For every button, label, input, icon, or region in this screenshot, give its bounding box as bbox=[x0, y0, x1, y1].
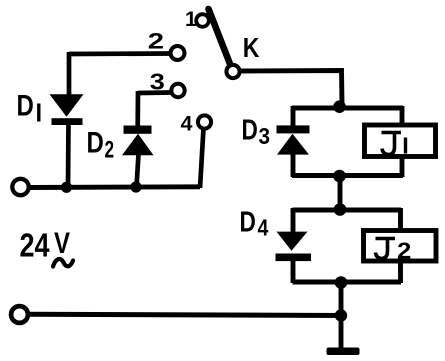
wire switch pole to node A bbox=[241, 71, 343, 105]
switch K top contact circle bbox=[196, 14, 209, 27]
wire bottom rail bbox=[29, 314, 342, 315]
wire terminal 2 to D1 branch bbox=[69, 51, 170, 56]
wire J1 right branch upper bbox=[400, 106, 405, 125]
terminal 4 circle bbox=[198, 115, 211, 128]
junction dot D1-rail bbox=[61, 182, 72, 193]
wire J1 bottom rail bbox=[292, 173, 403, 178]
svg-text:4: 4 bbox=[258, 215, 269, 241]
label K bbox=[243, 33, 260, 63]
left AC terminal lower bbox=[11, 306, 28, 323]
wire D3 branch vertical bbox=[291, 106, 296, 177]
svg-text:2: 2 bbox=[148, 30, 164, 54]
svg-text:D: D bbox=[17, 88, 34, 122]
svg-text:3: 3 bbox=[259, 123, 271, 149]
switch K lever bbox=[209, 9, 232, 67]
wire J1 top rail bbox=[292, 106, 403, 111]
wire terminal 4 down to rail bbox=[200, 129, 204, 189]
left AC terminal upper bbox=[12, 179, 28, 195]
wire J2 bottom rail bbox=[293, 280, 402, 285]
junction dot J1 bottom bbox=[333, 170, 346, 183]
svg-text:D: D bbox=[240, 205, 256, 238]
diode D1 bbox=[50, 94, 84, 125]
junction dot D2-rail bbox=[130, 181, 141, 192]
label D2 bbox=[87, 125, 115, 163]
label D1 bbox=[17, 88, 39, 122]
svg-text:K: K bbox=[243, 33, 260, 63]
junction dot J2 bottom bbox=[335, 276, 348, 289]
wire J2 right branch lower bbox=[398, 261, 403, 283]
wire J2 top rail bbox=[293, 208, 402, 213]
switch K pole circle bbox=[226, 65, 239, 78]
svg-text:D: D bbox=[87, 125, 104, 159]
terminal 3 circle bbox=[171, 84, 184, 97]
relay coil J2 box bbox=[364, 231, 437, 262]
wire D2 branch vertical bbox=[137, 91, 139, 187]
junction dot bottom rail bbox=[335, 309, 347, 321]
wire D1 branch vertical bbox=[68, 52, 69, 188]
wire J1 right branch lower bbox=[400, 156, 405, 177]
wire terminal 3 to D2 branch bbox=[138, 90, 172, 95]
relay coil J1 box bbox=[365, 125, 436, 157]
terminal 2 circle bbox=[171, 46, 185, 60]
label 24V bbox=[20, 225, 71, 264]
label J1 bbox=[382, 132, 406, 155]
label AC tilde bbox=[53, 259, 73, 266]
wire left bottom rail bbox=[29, 184, 200, 190]
svg-text:2: 2 bbox=[397, 239, 411, 264]
svg-text:24: 24 bbox=[20, 228, 50, 264]
terminal 1 label bbox=[185, 8, 197, 31]
wire J2 to bottom rail bbox=[339, 282, 344, 316]
diode D4 bbox=[276, 232, 312, 262]
svg-text:V: V bbox=[54, 225, 70, 259]
diode D2 bbox=[122, 126, 154, 156]
label J2 bbox=[376, 238, 412, 264]
diode D3 bbox=[277, 125, 310, 154]
junction dot J2 top bbox=[334, 203, 347, 216]
svg-text:D: D bbox=[242, 113, 258, 146]
label 4 bbox=[181, 112, 193, 136]
wire D4 branch vertical bbox=[291, 208, 296, 283]
svg-text:4: 4 bbox=[181, 112, 193, 136]
label 2 bbox=[148, 30, 164, 54]
wire node to J2 section bbox=[338, 176, 343, 211]
label 3 bbox=[150, 69, 165, 95]
label D3 bbox=[242, 113, 271, 150]
svg-text:2: 2 bbox=[105, 137, 115, 163]
label D4 bbox=[240, 205, 269, 241]
ground bbox=[327, 348, 360, 356]
ground stem wire bbox=[339, 315, 344, 349]
node A junction dot bbox=[333, 100, 346, 113]
wire J2 right branch upper bbox=[398, 208, 403, 230]
